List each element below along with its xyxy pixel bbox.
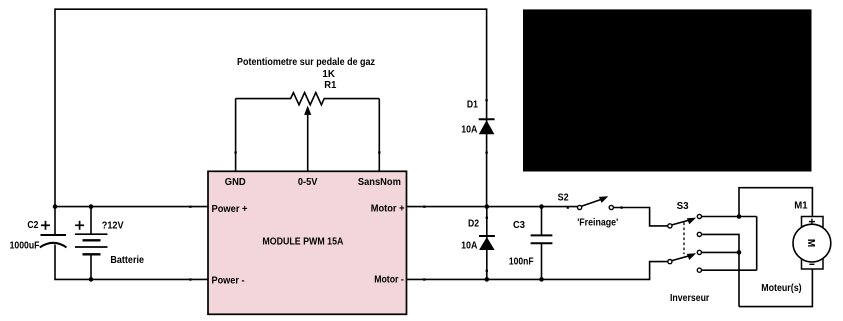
motor plus terminal	[809, 219, 815, 225]
svg-text:R1: R1	[324, 80, 336, 91]
node A junction dot at left loop / C2 / Power+	[53, 204, 58, 209]
wire: T3 row into vertical	[702, 251, 739, 253]
wire: motor loop bottom	[739, 269, 812, 307]
wire: T2 row corner down	[702, 234, 739, 306]
capacitor C2	[40, 235, 67, 247]
wire: Motor- row from module to S3 step	[407, 262, 668, 280]
wire: C2 branch upper	[54, 207, 56, 235]
switch S2 left contact	[578, 205, 582, 209]
switch S3 throw contact T2	[697, 232, 701, 236]
svg-text:S2: S2	[558, 192, 569, 203]
photo black rectangle	[523, 9, 812, 171]
node battery bottom junction dot	[89, 277, 94, 282]
switch S2 lever with arrow	[581, 199, 603, 207]
wire: D2 column	[486, 207, 488, 280]
svg-text:D2: D2	[468, 219, 479, 230]
svg-text:1000uF: 1000uF	[10, 240, 40, 251]
svg-text:MODULE PWM 15A: MODULE PWM 15A	[262, 236, 343, 247]
wire: outer top-left loop from Power+ node up, across top, to D1 column	[55, 9, 487, 206]
wire: Power+ row from node to module	[55, 206, 208, 208]
svg-text:GND: GND	[225, 177, 246, 188]
motor M1 body	[802, 217, 824, 270]
diode D2	[479, 236, 495, 250]
svg-text:Inverseur: Inverseur	[670, 293, 709, 304]
svg-text:SansNom: SansNom	[358, 177, 401, 188]
switch S3 upper lever with arrow	[672, 220, 691, 225]
capacitor C3	[531, 235, 553, 243]
node battery top junction dot	[89, 204, 94, 209]
module U1 MODULE PWM 15A	[208, 171, 407, 314]
wire: Motor+ row from module to S2	[407, 206, 578, 208]
node C3 junction dot on Motor+ row	[539, 204, 544, 209]
svg-text:10A: 10A	[461, 241, 477, 252]
svg-text:?12V: ?12V	[102, 220, 124, 231]
wire: S2 out to S3 upper pole	[614, 208, 668, 226]
wire: battery bottom lead	[90, 254, 92, 279]
wire: outer right vertical T1-T4	[756, 217, 758, 271]
node T1 junction dot	[737, 214, 742, 219]
wire: SansNom pin vertical	[378, 99, 380, 172]
C2 plus sign	[41, 221, 50, 230]
svg-text:100nF: 100nF	[509, 257, 534, 268]
wire: GND pin vertical	[235, 99, 237, 172]
svg-text:Power -: Power -	[212, 276, 245, 287]
svg-text:M1: M1	[794, 201, 808, 212]
svg-text:Motor -: Motor -	[374, 275, 404, 286]
svg-text:C3: C3	[513, 220, 525, 231]
svg-text:M: M	[805, 239, 816, 247]
wire: motor loop top	[739, 188, 812, 217]
wire: C2 branch lower, corner to Power- row	[55, 245, 208, 280]
node D1/D2 junction dot on Motor+ row	[485, 204, 490, 209]
wire: T1 row to outer right vertical	[702, 216, 757, 218]
svg-text:0-5V: 0-5V	[298, 177, 318, 188]
wire: C3 top lead	[541, 207, 543, 236]
svg-text:C2: C2	[27, 220, 38, 231]
potentiometer R1 wiper arrow	[304, 106, 311, 115]
svg-text:Power +: Power +	[212, 204, 248, 215]
switch S2 right contact	[609, 205, 613, 209]
switch S3 throw contact T3	[697, 250, 701, 254]
switch S3 throw contact T1	[697, 214, 701, 218]
svg-text:S3: S3	[677, 201, 689, 212]
switch S3 lower lever with arrow	[672, 255, 691, 260]
node D2 bottom junction dot	[485, 277, 490, 282]
svg-text:Potentiometre sur pedale de ga: Potentiometre sur pedale de gaz	[237, 57, 375, 68]
svg-text:Motor +: Motor +	[371, 204, 405, 215]
svg-text:1K: 1K	[322, 69, 335, 80]
battery B1 (Batterie)	[75, 234, 108, 254]
switch S3 throw contact T4	[697, 268, 701, 272]
diode D1	[479, 119, 495, 134]
svg-text:Batterie: Batterie	[110, 255, 144, 266]
potentiometer R1 resistor body	[236, 93, 380, 105]
motor minus terminal	[809, 263, 814, 265]
switch S3 upper pole contact	[668, 224, 672, 228]
battery plus sign	[75, 221, 84, 230]
svg-text:'Freinage': 'Freinage'	[577, 218, 618, 229]
node T3 junction dot	[737, 250, 742, 255]
svg-text:Moteur(s): Moteur(s)	[761, 283, 801, 294]
switch S3 lower pole contact	[668, 260, 672, 264]
wire: battery top lead	[90, 207, 92, 235]
switch S3 gang dashed link	[683, 223, 685, 255]
pin end tick marks	[189, 99, 622, 280]
svg-text:D1: D1	[467, 100, 478, 111]
wire: T4 row to outer right vertical	[702, 269, 757, 271]
svg-text:10A: 10A	[461, 125, 477, 136]
wire: C3 bottom lead	[541, 243, 543, 279]
wire: 0-5V wiper vertical	[307, 114, 309, 172]
node C3 bottom junction dot	[539, 277, 544, 282]
